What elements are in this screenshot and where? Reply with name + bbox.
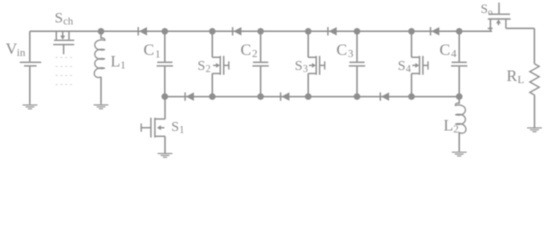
node A3 (S2 top) bbox=[209, 28, 216, 35]
node B3 (C2 bottom) bbox=[257, 93, 264, 100]
diode D5 (middle, right of C1) bbox=[185, 92, 194, 100]
svg-text:3: 3 bbox=[348, 48, 354, 60]
ground (L2) bbox=[452, 152, 467, 156]
node B2 (S2 bottom) bbox=[209, 93, 216, 100]
svg-text:3: 3 bbox=[303, 64, 308, 75]
svg-text:R: R bbox=[507, 68, 518, 85]
diode D7 (middle, right of C3) bbox=[380, 92, 389, 100]
label C4 bbox=[440, 42, 458, 60]
label Sch bbox=[55, 10, 74, 27]
wire (Sch gate dashed hint) bbox=[56, 58, 74, 85]
diode D2 (top, left of C2) bbox=[233, 27, 242, 35]
node B6 (S4 bottom) bbox=[408, 93, 415, 100]
label C3 bbox=[336, 42, 354, 60]
svg-text:L: L bbox=[518, 74, 525, 86]
node A4 (C2 top) bbox=[257, 28, 264, 35]
ground (RL) bbox=[527, 128, 542, 132]
svg-text:L: L bbox=[444, 118, 454, 135]
svg-text:ch: ch bbox=[63, 16, 74, 27]
svg-text:1: 1 bbox=[179, 125, 184, 136]
svg-text:in: in bbox=[17, 47, 26, 59]
node A8 (C4 top) bbox=[456, 28, 463, 35]
diode D3 (top, left of C3) bbox=[328, 27, 337, 35]
svg-text:S: S bbox=[198, 59, 206, 74]
label Vin bbox=[6, 41, 26, 59]
svg-text:C: C bbox=[440, 42, 451, 59]
ground (Vin) bbox=[23, 105, 38, 109]
capacitor C1 bbox=[157, 31, 173, 96]
svg-text:2: 2 bbox=[453, 124, 459, 136]
label S1 bbox=[171, 120, 184, 136]
svg-text:V: V bbox=[6, 41, 18, 58]
svg-text:S: S bbox=[398, 59, 406, 74]
svg-text:4: 4 bbox=[451, 48, 457, 60]
node B1 (C1 bottom) bbox=[162, 93, 169, 100]
node A7 (S4 top) bbox=[408, 28, 415, 35]
wire middle rail bbox=[165, 96, 459, 98]
svg-text:2: 2 bbox=[206, 64, 211, 75]
label C2 bbox=[241, 42, 258, 60]
label S4 bbox=[398, 59, 411, 75]
svg-text:S: S bbox=[295, 59, 303, 74]
switch So (MOSFET) bbox=[488, 3, 535, 32]
node B5 (C3 bottom) bbox=[354, 93, 361, 100]
label L2 bbox=[444, 118, 459, 136]
ground (S1) bbox=[158, 154, 173, 158]
svg-text:1: 1 bbox=[155, 48, 161, 60]
inductor L1 bbox=[94, 31, 105, 104]
wire top rail bbox=[30, 30, 492, 32]
switch S1 (MOSFET) bbox=[141, 97, 165, 154]
label L1 bbox=[111, 54, 126, 72]
node B7 (C4 bottom / L2 top) bbox=[456, 93, 463, 100]
resistor RL bbox=[530, 64, 539, 95]
svg-text:C: C bbox=[241, 42, 252, 59]
capacitor C4 bbox=[451, 31, 467, 96]
svg-text:4: 4 bbox=[406, 64, 411, 75]
svg-text:2: 2 bbox=[252, 48, 258, 60]
wire bbox=[534, 95, 536, 128]
switch S3 (MOSFET) bbox=[308, 31, 325, 96]
diode D6 (middle, right of C2) bbox=[281, 92, 290, 100]
capacitor C3 bbox=[349, 31, 365, 96]
label C1 bbox=[144, 42, 161, 60]
label So bbox=[481, 1, 493, 18]
switch Sch (MOSFET) bbox=[53, 31, 74, 54]
svg-text:C: C bbox=[144, 42, 155, 59]
node A2 (C1 top) bbox=[162, 28, 169, 35]
ground (L1) bbox=[94, 105, 109, 109]
node A6 (C3 top) bbox=[354, 28, 361, 35]
diode D4 (top, left of C4) bbox=[431, 27, 440, 35]
node A1 (L1 top) bbox=[98, 28, 105, 35]
svg-text:S: S bbox=[55, 10, 63, 26]
svg-text:S: S bbox=[171, 120, 179, 135]
svg-text:S: S bbox=[481, 1, 488, 16]
svg-text:C: C bbox=[336, 42, 347, 59]
source Vin bbox=[20, 31, 41, 104]
svg-text:o: o bbox=[488, 8, 493, 18]
label RL bbox=[507, 68, 525, 86]
label S2 bbox=[198, 59, 211, 75]
svg-text:L: L bbox=[111, 54, 121, 71]
node A5 (S3 top) bbox=[305, 28, 312, 35]
label S3 bbox=[295, 59, 308, 75]
node B4 (S3 bottom) bbox=[305, 93, 312, 100]
switch S2 (MOSFET) bbox=[212, 31, 229, 96]
diode D1 (top, left of C1) bbox=[138, 27, 147, 35]
capacitor C2 bbox=[252, 31, 268, 96]
svg-text:1: 1 bbox=[120, 60, 126, 72]
wire (output right) bbox=[533, 28, 535, 63]
switch S4 (MOSFET) bbox=[412, 31, 429, 96]
inductor L2 bbox=[455, 97, 466, 152]
